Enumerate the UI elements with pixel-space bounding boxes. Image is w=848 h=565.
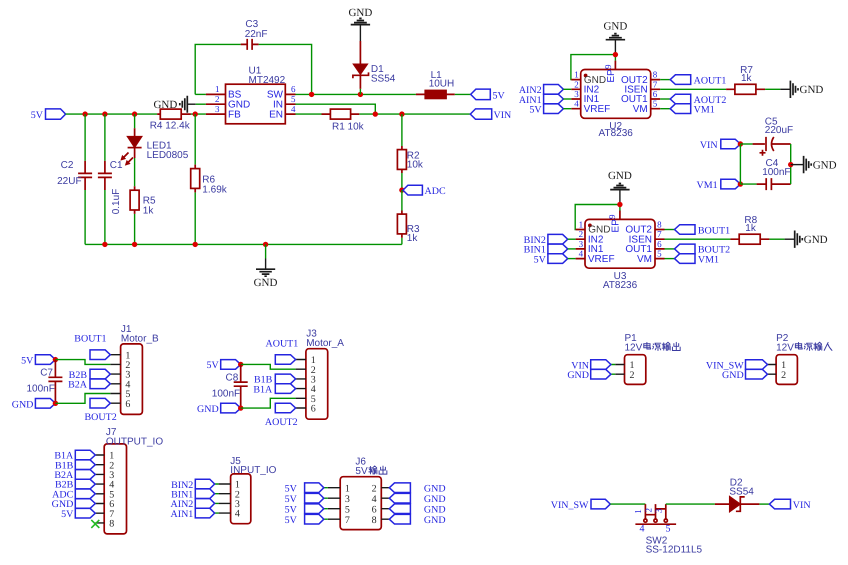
wire SW2 to D2 (666, 503, 715, 505)
connector P1 12V power output (611, 333, 646, 385)
svg-text:Motor_B: Motor_B (121, 333, 159, 344)
wire BS to C3 (195, 93, 206, 95)
op-amp U3 AT8236 (576, 214, 665, 291)
svg-text:22UF: 22UF (57, 176, 81, 187)
svg-text:1: 1 (574, 70, 579, 80)
svg-text:AOUT2: AOUT2 (265, 417, 298, 428)
svg-text:1: 1 (579, 220, 584, 230)
node B2B at J1 (69, 369, 111, 381)
node 5V at U2 VREF (529, 104, 571, 116)
svg-text:5V: 5V (529, 105, 542, 116)
svg-text:6: 6 (372, 504, 377, 515)
svg-text:BOUT1: BOUT1 (74, 334, 106, 345)
svg-text:GND: GND (603, 20, 627, 32)
svg-text:10UH: 10UH (429, 78, 455, 89)
svg-text:AT8236: AT8236 (599, 128, 634, 139)
node B1A at J7 (54, 450, 95, 461)
svg-text:10k: 10k (407, 160, 424, 171)
node VIN at C5 (700, 139, 743, 151)
node AOUT1 (660, 75, 726, 87)
svg-text:SS-12D11L5: SS-12D11L5 (646, 544, 703, 555)
node AOUT2 at J3 (265, 403, 298, 428)
svg-text:AOUT1: AOUT1 (694, 75, 727, 86)
ground GND above U3 (608, 170, 632, 204)
svg-text:2: 2 (630, 370, 635, 381)
svg-text:MT2492: MT2492 (249, 75, 286, 86)
node BOUT1 (665, 225, 731, 237)
svg-text:GND: GND (153, 99, 177, 111)
svg-text:GND: GND (800, 84, 824, 96)
svg-text:VM: VM (637, 254, 652, 265)
ground GND bottom symbol (254, 244, 278, 288)
resistor R8 (730, 215, 769, 244)
svg-text:OUTPUT_IO: OUTPUT_IO (106, 436, 163, 447)
node AOUT2 (660, 94, 726, 106)
capacitor C8 (212, 364, 248, 408)
svg-text:2: 2 (579, 229, 584, 239)
wire SW net (296, 92, 471, 97)
wire 5V to J1 pin2 (55, 360, 110, 365)
svg-text:5: 5 (657, 249, 662, 259)
inductor L1 (416, 70, 455, 99)
svg-text:GND: GND (722, 370, 744, 381)
capacitor C5 (polarized) (740, 117, 793, 156)
svg-text:12V: 12V (625, 342, 643, 353)
svg-text:9: 9 (603, 64, 613, 69)
svg-text:FB: FB (228, 109, 241, 120)
svg-text:VIN: VIN (494, 110, 512, 121)
diode D2 SS54 (715, 478, 760, 512)
svg-text:GND: GND (813, 160, 837, 172)
node GND at J1 (12, 399, 58, 411)
svg-text:VIN: VIN (793, 500, 811, 511)
svg-text:4: 4 (640, 524, 645, 535)
svg-text:5V: 5V (206, 360, 219, 371)
svg-text:Motor_A: Motor_A (306, 338, 344, 349)
node B1B at J3 (254, 374, 296, 386)
connector J5 INPUT_IO (215, 456, 277, 524)
svg-text:8: 8 (657, 220, 662, 230)
svg-text:8: 8 (653, 70, 658, 80)
svg-text:ADC: ADC (425, 186, 446, 197)
svg-text:B2A: B2A (68, 380, 88, 391)
svg-text:5: 5 (291, 94, 296, 104)
capacitor C7 (27, 360, 63, 404)
svg-text:6: 6 (653, 89, 658, 99)
node AOUT1 at J3 (266, 339, 299, 365)
node BOUT2 (665, 244, 731, 256)
svg-text:2: 2 (643, 508, 653, 513)
svg-text:0.1uF: 0.1uF (111, 189, 122, 215)
svg-text:BOUT1: BOUT1 (698, 225, 730, 236)
node VIN (top right) (470, 109, 511, 121)
resistor R3 (397, 190, 420, 244)
svg-text:5V: 5V (285, 484, 298, 495)
svg-text:AT8236: AT8236 (603, 280, 638, 291)
node B1A at J3 (253, 384, 295, 396)
wire EN net (296, 111, 471, 116)
wire U3 pin1/EP to GND (575, 202, 622, 230)
svg-text:5V: 5V (285, 515, 298, 526)
svg-text:3: 3 (215, 104, 220, 114)
svg-text:220uF: 220uF (765, 125, 793, 136)
svg-text:4: 4 (579, 249, 584, 259)
capacitor C4 (740, 158, 790, 190)
svg-text:SS54: SS54 (729, 487, 754, 498)
connector J1 Motor_B (110, 324, 159, 415)
svg-text:1: 1 (345, 483, 350, 494)
svg-text:5V: 5V (493, 90, 506, 101)
no-connect X at J7 pin8 (91, 520, 99, 528)
svg-text:2: 2 (781, 370, 786, 381)
svg-text:VREF: VREF (584, 104, 611, 115)
svg-text:LED0805: LED0805 (147, 150, 189, 161)
svg-text:4: 4 (235, 509, 240, 520)
node GND at J3 (197, 403, 243, 415)
svg-text:INPUT_IO: INPUT_IO (230, 465, 276, 476)
svg-text:5V: 5V (355, 466, 368, 477)
svg-text:R1 10k: R1 10k (332, 122, 365, 133)
ground GND at U1 pin2 (153, 96, 205, 113)
svg-text:5V: 5V (61, 509, 74, 520)
svg-text:3: 3 (654, 508, 664, 513)
svg-text:2: 2 (574, 79, 579, 89)
wire D2 to VIN (759, 503, 769, 505)
svg-text:3: 3 (574, 89, 579, 99)
svg-text:4: 4 (574, 99, 579, 109)
svg-text:5V: 5V (534, 254, 547, 265)
svg-text:BOUT2: BOUT2 (85, 412, 117, 423)
svg-text:5: 5 (653, 99, 658, 109)
svg-text:4: 4 (372, 494, 377, 505)
svg-text:1k: 1k (745, 223, 757, 234)
node AIN1 (519, 94, 571, 106)
junction dots on 5V rail (82, 111, 197, 116)
svg-text:GND: GND (197, 404, 219, 415)
svg-text:GND: GND (424, 494, 446, 505)
resistor R6 (191, 114, 228, 244)
svg-text:VM1: VM1 (696, 180, 717, 191)
ground GND right of R7 (765, 81, 823, 98)
wire GND to J1 pin5 (55, 394, 110, 404)
svg-text:8: 8 (109, 519, 114, 530)
svg-text:5V: 5V (21, 355, 34, 366)
svg-text:100nF: 100nF (27, 384, 55, 395)
svg-text:3: 3 (345, 494, 350, 505)
node AIN2 at J5 (171, 499, 215, 511)
LED LED1 (122, 114, 189, 164)
node GND at J7 (52, 499, 96, 510)
wire 5V to J3 pin2 (241, 364, 296, 369)
node 5V (left power flag) (31, 109, 66, 121)
svg-text:2: 2 (372, 483, 377, 494)
svg-text:EN: EN (269, 109, 283, 120)
svg-text:C7: C7 (40, 368, 53, 379)
node 5V at J3 (206, 360, 243, 372)
svg-text:C1: C1 (110, 160, 123, 171)
svg-text:1k: 1k (143, 205, 155, 216)
svg-text:VM1: VM1 (694, 104, 715, 115)
svg-text:SS54: SS54 (371, 73, 396, 84)
svg-text:1k: 1k (741, 73, 753, 84)
node 5V at J1 (21, 355, 58, 367)
node 5V flags at J6 (left) (285, 483, 324, 495)
svg-text:9: 9 (607, 214, 617, 219)
svg-text:6: 6 (311, 404, 316, 415)
node BIN1 (524, 244, 576, 256)
wire VIN to VM1 vertical and GND stub (740, 144, 803, 184)
diode D1 SS54 (353, 41, 396, 94)
svg-text:100nF: 100nF (762, 167, 790, 178)
label 12V power-in (Chinese) at P2 (776, 342, 832, 353)
svg-text:EP: EP (606, 69, 617, 83)
ground GND right of R8 (769, 231, 827, 248)
node VM1 at U2 (660, 104, 715, 116)
node AIN1 at J5 (171, 508, 215, 520)
node VIN_SW at SW2 (551, 499, 611, 511)
svg-text:VREF: VREF (588, 254, 615, 265)
connector J6 5V output header (324, 456, 390, 529)
svg-text:AIN1: AIN1 (171, 509, 194, 520)
svg-text:7: 7 (657, 229, 662, 239)
node B2A at J7 (54, 470, 95, 481)
op-amp U1 MT2492 (206, 66, 296, 124)
capacitor C3 (195, 19, 311, 94)
op-amp U2 AT8236 (571, 64, 660, 139)
wire ISEN U2 to R7 (660, 88, 726, 90)
node ADC (399, 185, 446, 197)
resistor R2 (397, 114, 424, 190)
svg-text:R4 12.4k: R4 12.4k (150, 120, 191, 131)
svg-text:7: 7 (345, 515, 350, 526)
svg-text:AOUT1: AOUT1 (266, 339, 299, 350)
node BIN2 at J5 (171, 479, 215, 491)
node VIN at D2 (769, 499, 810, 511)
svg-text:8: 8 (372, 515, 377, 526)
svg-text:1.69k: 1.69k (202, 184, 227, 195)
node BOUT1 at J1 (74, 334, 110, 360)
node GND at P1 (567, 369, 611, 381)
svg-text:C8: C8 (226, 372, 239, 383)
resistor R5 (130, 158, 156, 244)
svg-text:VM1: VM1 (698, 254, 719, 265)
node BOUT2 at J1 (85, 398, 117, 423)
connector P2 12V power input (768, 333, 798, 385)
node 5V (right of L1) (471, 89, 506, 101)
svg-text:3: 3 (579, 239, 584, 249)
svg-text:GND: GND (567, 370, 589, 381)
svg-text:VM: VM (633, 104, 648, 115)
wire GND to J3 pin5 (241, 398, 296, 408)
svg-text:B1A: B1A (253, 384, 273, 395)
wire 5V rail (66, 113, 206, 115)
ground GND above U2 (603, 20, 627, 54)
svg-text:5: 5 (345, 504, 350, 515)
svg-text:5: 5 (666, 524, 671, 535)
ground GND above D1 (348, 7, 372, 41)
svg-text:12V: 12V (776, 342, 794, 353)
connector J3 Motor_A (296, 329, 345, 420)
label 12V power-out (Chinese) at P1 (625, 342, 681, 353)
svg-text:VIN: VIN (700, 140, 718, 151)
svg-text:5V: 5V (31, 110, 44, 121)
svg-text:GND: GND (254, 277, 278, 289)
svg-text:GND: GND (12, 399, 34, 410)
resistor R4 (150, 109, 191, 131)
svg-text:6: 6 (291, 84, 296, 94)
svg-text:22nF: 22nF (245, 29, 268, 40)
node 5V at J7 (61, 508, 95, 519)
svg-text:GND: GND (424, 505, 446, 516)
node ADC at J7 (52, 489, 95, 500)
svg-text:5V: 5V (285, 505, 298, 516)
node VM1 at C4 (696, 179, 743, 191)
node B2B at J7 (55, 479, 95, 490)
ground GND right of C4 (804, 156, 837, 173)
wire U2 pin1/EP to GND (571, 52, 618, 80)
node 5V at U3 VREF (534, 254, 576, 266)
svg-text:100nF: 100nF (212, 388, 240, 399)
svg-text:EP: EP (610, 219, 621, 233)
resistor R7 (726, 65, 765, 94)
svg-text:4: 4 (291, 104, 296, 114)
capacitor C2 (57, 114, 92, 244)
svg-text:2: 2 (215, 94, 220, 104)
svg-text:1k: 1k (407, 233, 419, 244)
node BIN2 (524, 234, 576, 246)
node AIN2 (519, 85, 571, 97)
node VM1 at U3 (665, 254, 720, 266)
svg-text:1: 1 (215, 84, 220, 94)
svg-text:GND: GND (424, 484, 446, 495)
svg-text:GND: GND (608, 170, 632, 182)
label 5V output (Chinese) at J6 (355, 466, 386, 477)
wire IN net (296, 104, 376, 114)
node GND at P2 (722, 369, 767, 381)
wire VIN_SW to SW2 (610, 503, 645, 505)
svg-text:1: 1 (633, 509, 643, 514)
node B2A at J1 (68, 379, 110, 391)
node BIN1 at J5 (171, 489, 215, 501)
switch SW2 SS-12D11L5 (633, 504, 702, 555)
svg-text:7: 7 (653, 79, 658, 89)
svg-text:6: 6 (657, 239, 662, 249)
svg-text:5V: 5V (285, 494, 298, 505)
connector J7 OUTPUT_IO (95, 427, 163, 534)
wire bottom ground rail (85, 242, 402, 247)
svg-text:GND: GND (424, 515, 446, 526)
svg-text:VIN_SW: VIN_SW (551, 500, 589, 511)
svg-text:GND: GND (804, 234, 828, 246)
capacitor C1 (98, 114, 123, 244)
node GND flags at J6 (right) (389, 483, 445, 495)
node VIN at P1 (571, 360, 611, 372)
node B1B at J7 (55, 460, 95, 471)
wire ISEN U3 to R8 (665, 238, 731, 240)
svg-text:GND: GND (348, 7, 372, 19)
svg-text:6: 6 (125, 399, 130, 410)
node VIN_SW at P2 (706, 360, 768, 372)
svg-text:C2: C2 (61, 160, 74, 171)
resistor R1 (322, 109, 365, 132)
